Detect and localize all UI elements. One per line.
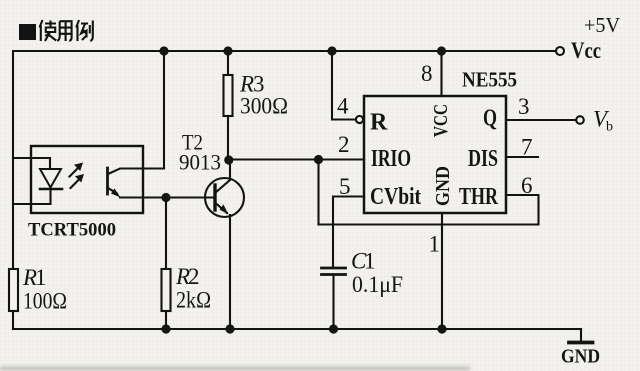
svg-text:100Ω: 100Ω (23, 289, 67, 314)
pin4 inverter circle (356, 116, 363, 123)
phototransistor emitter arrowhead (111, 189, 121, 198)
svg-text:3: 3 (518, 94, 530, 119)
svg-text:1: 1 (35, 265, 47, 290)
junction: rail / pin4 (327, 46, 336, 55)
svg-text:CVbit: CVbit (370, 184, 421, 210)
wire: pin4 reset from rail (332, 51, 356, 120)
transistor T2 base bar (213, 185, 216, 210)
wire: R1 bottom lead to bottom rail (12, 311, 14, 329)
wire: left rail down to R1 (12, 51, 14, 269)
svg-text:6: 6 (521, 173, 533, 198)
wire: pin1 GND down (441, 213, 443, 329)
wire: pin3 Q output (506, 119, 576, 121)
wire: R3 bottom lead to collector node (227, 116, 229, 160)
svg-text:5: 5 (339, 174, 351, 199)
capacitor C1 top plate (322, 267, 346, 270)
op-amp U1 NE555 box (364, 96, 506, 213)
svg-text:9013: 9013 (179, 150, 221, 175)
svg-text:VCC: VCC (430, 104, 452, 137)
wire: pin5 CV to C1 (333, 197, 364, 267)
svg-text:1: 1 (364, 249, 376, 274)
svg-text:TCRT5000: TCRT5000 (28, 220, 116, 241)
svg-text:GND: GND (432, 166, 454, 206)
wire: R2 bottom lead (165, 311, 167, 329)
svg-text:2kΩ: 2kΩ (176, 288, 211, 313)
wire: C1 bottom lead (332, 276, 334, 329)
wire: top +5V rail (13, 50, 556, 52)
resistor R3 (224, 75, 233, 116)
svg-text:Vcc: Vcc (571, 38, 601, 63)
light arrow 2 head (75, 174, 84, 183)
svg-text:GND: GND (561, 346, 600, 368)
label: ■使用例 (usage example) (19, 20, 93, 41)
wire: pin8 VCC from rail (440, 51, 442, 96)
svg-text:4: 4 (337, 94, 349, 119)
capacitor C1 bottom plate (322, 273, 346, 276)
junction: pin2 node (314, 155, 323, 164)
svg-text:0.1μF: 0.1μF (352, 272, 403, 297)
svg-text:300Ω: 300Ω (240, 94, 288, 119)
svg-text:NE555: NE555 (462, 68, 517, 92)
junction: rail / photocollector (159, 46, 168, 55)
bottom scan smudge (0, 366, 470, 371)
svg-text:Q: Q (483, 106, 497, 132)
light arrow 1 (70, 168, 79, 177)
char 使 (40, 20, 57, 41)
svg-text:DIS: DIS (468, 146, 498, 172)
wire: photocollector up to +5V rail (163, 51, 165, 169)
transistor T2 collector (216, 160, 231, 193)
transistor T2 circle (205, 178, 244, 217)
svg-text:2: 2 (188, 264, 200, 289)
svg-text:THR: THR (459, 184, 498, 210)
svg-text:+5V: +5V (584, 13, 620, 37)
svg-text:7: 7 (521, 135, 533, 160)
junction: rail / pin8 (437, 46, 446, 55)
svg-text:R: R (370, 110, 388, 136)
junction: bottom rail / T2 emitter (225, 324, 234, 333)
phototransistor base bar (106, 168, 109, 194)
phototransistor collector (108, 169, 164, 175)
junction node A: emitter/base/R2 (161, 193, 170, 202)
junction: bottom rail / R2 (161, 324, 170, 333)
wire: node A to transistor base (166, 196, 213, 198)
char 例 (76, 20, 93, 41)
transistor T2 emitter (216, 203, 228, 213)
junction: rail / R3 (223, 46, 232, 55)
terminal Vb circle (576, 116, 584, 124)
TCRT5000 package box (31, 146, 143, 213)
phototransistor emitter (108, 188, 117, 194)
wire: LED anode stub (13, 158, 50, 169)
light arrow 1 head (74, 163, 83, 172)
LED D1 (emitter diode) (40, 169, 61, 188)
char 用 (57, 21, 71, 41)
wire: T2 emitter down to bottom rail (229, 215, 231, 329)
svg-text:1: 1 (429, 232, 441, 257)
ground symbol (580, 329, 582, 341)
wire: pin7 DIS stub (506, 156, 538, 158)
svg-text:IRIO: IRIO (371, 146, 411, 172)
junction: bottom rail / pin1 (437, 324, 446, 333)
junction: bottom rail / C1 (329, 324, 338, 333)
wire: R3 top lead from rail (227, 51, 229, 75)
wire: pin6 THR loop to pin2 node (319, 195, 539, 225)
wire: pin2 node down (317, 160, 319, 225)
junction: R3 bottom / T2 collector (224, 155, 233, 164)
resistor R1 (9, 269, 18, 311)
wire: node A down through R2 (165, 198, 167, 270)
wire: bottom ground rail (13, 328, 581, 330)
wire: emitter to node A (120, 196, 166, 198)
wire: collector node to pin2 (228, 158, 364, 160)
T2 emitter arrowhead (220, 205, 229, 215)
LED cathode bar (40, 188, 62, 191)
svg-text:8: 8 (421, 61, 433, 86)
terminal Vcc circle (556, 47, 564, 55)
svg-text:b: b (606, 120, 613, 135)
wire: LED cathode lead (13, 189, 51, 204)
light arrow 2 (71, 180, 80, 189)
resistor R2 (162, 269, 171, 311)
svg-text:2: 2 (338, 132, 350, 157)
